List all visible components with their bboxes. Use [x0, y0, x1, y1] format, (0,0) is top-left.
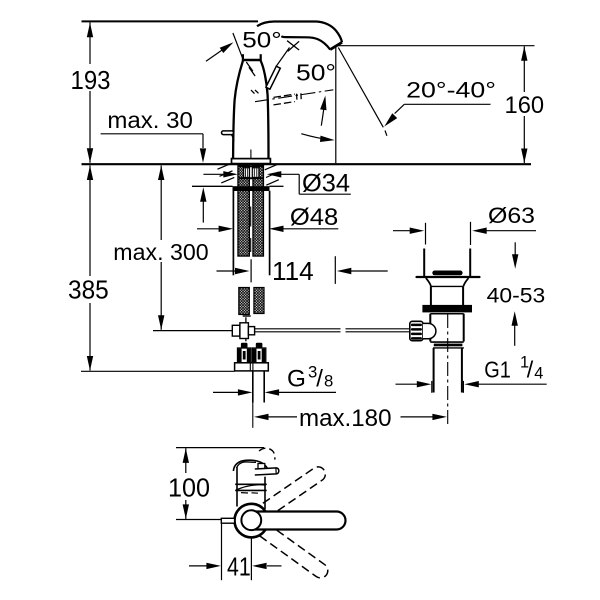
svg-text:max. 30: max. 30	[107, 107, 192, 133]
svg-text:4: 4	[534, 364, 543, 382]
svg-text:G: G	[287, 366, 306, 393]
svg-text:Ø34: Ø34	[302, 170, 350, 198]
svg-text:50°: 50°	[242, 27, 281, 52]
svg-text:40-53: 40-53	[487, 283, 546, 307]
svg-text:160: 160	[505, 92, 545, 119]
svg-text:20°-40°: 20°-40°	[406, 78, 496, 103]
svg-text:100: 100	[168, 473, 210, 503]
svg-text:Ø63: Ø63	[488, 203, 535, 228]
svg-text:Ø48: Ø48	[290, 204, 338, 231]
svg-text:max.180: max.180	[299, 405, 392, 432]
svg-text:/: /	[316, 366, 323, 393]
svg-text:G1: G1	[484, 357, 511, 383]
svg-text:50°: 50°	[296, 59, 336, 85]
svg-text:/: /	[527, 357, 534, 383]
svg-text:385: 385	[68, 275, 109, 305]
svg-text:114: 114	[272, 258, 314, 286]
svg-text:max. 300: max. 300	[113, 239, 208, 265]
svg-text:193: 193	[71, 65, 111, 95]
svg-text:41: 41	[227, 551, 251, 581]
svg-text:8: 8	[324, 372, 333, 391]
